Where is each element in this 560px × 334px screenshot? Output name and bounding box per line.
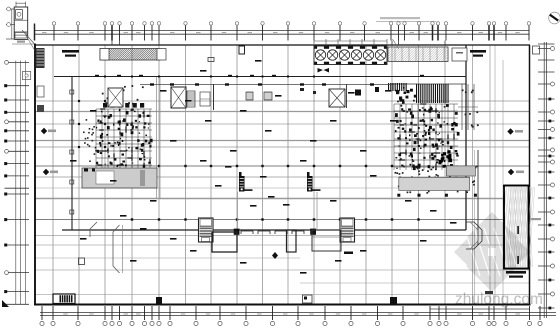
small mark bottom right	[485, 291, 493, 294]
site boundary bottom wall	[34, 304, 531, 306]
cooling tower label above band	[376, 17, 436, 49]
ramp curve upper	[90, 222, 97, 237]
building right wall	[465, 45, 467, 230]
label right vent	[470, 50, 486, 57]
building top wall right segment	[390, 83, 466, 85]
svg-text:zhulong.com: zhulong.com	[455, 291, 543, 308]
ramp curve lower	[113, 225, 120, 273]
basement ramp with hatch	[503, 186, 535, 269]
stairwell center-right	[340, 218, 355, 242]
ramp side label	[531, 218, 541, 220]
entrance diamond left lower	[43, 169, 58, 175]
hatched vent strip left	[89, 49, 172, 61]
left dimension band	[2, 61, 31, 308]
top-left elevator detail	[6, 2, 35, 51]
site boundary top wall	[34, 44, 530, 46]
tiny mark below stairs	[344, 252, 353, 255]
top dimension band with grid bubbles	[35, 22, 531, 45]
stairwell center-left	[199, 218, 214, 242]
site boundary left wall	[34, 44, 36, 305]
building bottom wall	[62, 229, 466, 231]
vestibule a	[212, 232, 237, 252]
striped equipment box bottom-left	[53, 294, 75, 304]
right dimension band	[538, 42, 555, 318]
black diamond marker bottom center	[272, 252, 278, 259]
left service core dense block	[83, 77, 186, 198]
small box lower left	[79, 258, 85, 265]
gray room left	[82, 168, 157, 188]
entrance door brackets	[241, 231, 304, 234]
vestibule b	[287, 230, 297, 252]
black blob bottom a	[156, 297, 162, 304]
rooms right of right core	[70, 58, 543, 309]
room walls between cores	[70, 58, 543, 309]
gray corridor right	[399, 177, 470, 190]
small box right of boundary	[533, 46, 540, 54]
structural columns	[78, 76, 477, 221]
door ticks on top wall	[95, 75, 424, 77]
detail box on site line	[239, 46, 245, 54]
canopy zigzag right	[466, 222, 482, 249]
black blob bottom b	[390, 297, 397, 304]
escalator left	[239, 172, 253, 192]
small blobs center top	[300, 87, 379, 96]
entrance diamond left upper	[41, 128, 56, 134]
small boxes bottom-center	[303, 295, 313, 303]
hatched vent strip right	[374, 47, 468, 62]
label left vent	[62, 50, 79, 57]
right service core dense block	[388, 83, 478, 245]
bottom dimension band with grid bubbles	[40, 306, 556, 326]
north arrow circle	[549, 12, 560, 24]
site boundary right wall	[529, 45, 531, 305]
watermark zhulong logo and text	[454, 212, 543, 308]
building top wall	[54, 76, 466, 78]
building left wall	[71, 76, 73, 230]
cooling tower bank of six	[314, 39, 387, 73]
column grid vertical lines	[53, 46, 503, 305]
escalator right	[307, 172, 321, 192]
left wall stair and closets	[36, 48, 74, 214]
corner tick line	[12, 43, 34, 45]
corridor lines below escalators	[238, 192, 318, 230]
entrance diamond right upper	[507, 128, 523, 134]
x-room center	[329, 89, 345, 107]
vestibule c	[312, 230, 341, 251]
ramp label	[506, 271, 526, 278]
gray room right upper	[446, 166, 475, 176]
small box upper center	[208, 58, 214, 62]
entrance diamond right lower	[508, 169, 524, 175]
tiny room labels	[70, 60, 457, 274]
column grid horizontal lines	[36, 101, 530, 295]
